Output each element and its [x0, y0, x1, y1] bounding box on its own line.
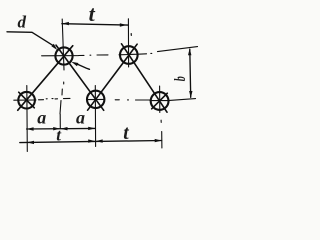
dimension line b right	[189, 49, 192, 97]
hole botR circle	[151, 92, 169, 110]
hole topR centerline vertical	[127, 19, 129, 67]
arrow t-bottom middle pair left-pointing	[96, 139, 103, 142]
dimension line t bottom (both spans)	[20, 141, 162, 143]
pitch line botM-topR	[88, 44, 138, 110]
arrow d leader at hole edge	[51, 44, 57, 50]
hole botR centerline vertical dash-dot	[160, 86, 162, 148]
hole topR circle	[120, 46, 138, 64]
hole topL centerline vertical	[62, 19, 64, 70]
cross mark botR	[152, 93, 168, 109]
arrow t-bottom right	[155, 139, 162, 142]
hole topL circle	[55, 47, 72, 64]
staggered hole pitch drawing	[0, 0, 203, 168]
arrow a left	[27, 127, 34, 130]
leader d second arrow tail	[77, 64, 90, 69]
hole topL centerline vertical dash-dot lower extension	[60, 82, 64, 129]
leader d: underline and slanted leader	[7, 32, 54, 46]
arrow b bottom	[189, 91, 192, 98]
arrow top-t left	[62, 22, 69, 25]
hole botL centerline vertical / extension line	[26, 86, 29, 152]
arrow t-bottom left	[27, 141, 34, 144]
arrow b top	[188, 48, 191, 55]
svg-text:d: d	[18, 13, 27, 32]
svg-text:a: a	[76, 108, 85, 128]
hole botM centerline vertical / extension line	[94, 86, 96, 147]
arrow a middle pair left-pointing	[61, 127, 68, 130]
svg-text:t: t	[123, 123, 129, 144]
svg-text:t: t	[89, 1, 96, 26]
pitch line botL-topL	[18, 46, 73, 111]
dimension line a a	[27, 127, 96, 130]
hole botM circle	[87, 91, 104, 108]
bottom row horizontal centerline dash-dot	[14, 98, 196, 100]
stray dot below topR dim extension	[130, 34, 132, 36]
arrow a right	[88, 127, 95, 130]
arrow t-bottom middle pair right-pointing	[88, 139, 95, 142]
top row horizontal centerline dash-dot	[42, 47, 198, 56]
svg-text:a: a	[37, 108, 46, 128]
arrow d second at hole SE edge	[71, 62, 78, 66]
arrow top-t right	[120, 23, 127, 26]
pitch line topL-botM	[56, 45, 104, 110]
svg-text:b: b	[171, 76, 189, 81]
dimension line t top	[62, 24, 128, 25]
hole botL circle	[18, 92, 35, 109]
cross mark botL	[19, 92, 35, 108]
pitch line topR-botR	[122, 44, 168, 112]
arrow a middle pair right-pointing	[53, 127, 60, 130]
